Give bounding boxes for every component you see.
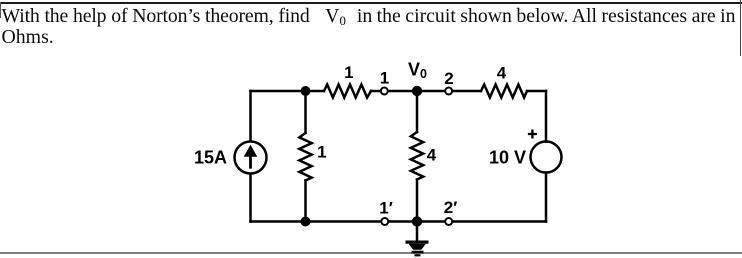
wire terminal 2' to bottom-right corner: [453, 220, 546, 223]
svg-text:1: 1: [380, 69, 389, 88]
current source I1 circle: [235, 142, 267, 174]
problem text line 1: [2, 6, 742, 27]
svg-text:15A: 15A: [194, 148, 227, 168]
terminal node 1' (open): [381, 218, 388, 225]
label plus polarity: [528, 130, 537, 139]
svg-text:1: 1: [344, 63, 353, 82]
wire right side lower: [545, 173, 548, 222]
svg-text:1′: 1′: [379, 199, 393, 218]
wire ground stem: [416, 222, 419, 241]
wire branch R1 upper: [304, 91, 307, 133]
ground symbol: [406, 241, 429, 257]
svg-text:V0: V0: [408, 60, 427, 82]
wire branch R1 lower: [304, 181, 307, 222]
wire branch V0 upper: [416, 91, 419, 132]
svg-text:2′: 2′: [444, 198, 458, 217]
junction dot top-left: [301, 86, 311, 96]
svg-text:2: 2: [444, 69, 453, 88]
left border tick: [0, 2, 1, 18]
resistor R top-left value 1 (zigzag): [324, 85, 371, 98]
top border line: [0, 2, 742, 4]
junction dot node V0: [412, 86, 422, 96]
wire resistor 4 to top-right corner: [527, 90, 546, 93]
svg-text:1: 1: [317, 143, 326, 162]
resistor R top-right value 4 (zigzag): [481, 85, 527, 98]
junction dot bottom-left: [301, 217, 311, 227]
wire left side lower: [249, 174, 252, 222]
junction dot ground node: [412, 216, 422, 226]
voltage source V1 circle: [531, 142, 562, 173]
svg-text:10 V: 10 V: [489, 148, 526, 168]
wire terminal 2 to resistor 4: [453, 90, 481, 93]
resistor R middle value 4 (vertical zigzag): [411, 132, 423, 180]
current source I1 arrow: [244, 145, 258, 169]
wire terminal 1 to node V0: [389, 90, 412, 93]
wire resistor to terminal 1: [371, 90, 380, 93]
wire branch V0 lower: [416, 180, 419, 222]
right border line: [740, 0, 742, 56]
wire node V0 to terminal 2: [421, 90, 444, 93]
bottom gray rule: [0, 252, 742, 255]
wire top-left horizontal: [251, 90, 325, 93]
terminal node 1 (open): [381, 88, 388, 95]
terminal node 2 (open): [445, 88, 452, 95]
resistor R middle-left value 1 (vertical zigzag): [299, 133, 311, 181]
wire right side upper: [545, 91, 548, 142]
svg-text:4: 4: [427, 146, 437, 165]
problem text line 2: [2, 27, 742, 48]
wire bottom from left corner to terminal 1': [251, 220, 381, 223]
terminal node 2' (open): [445, 218, 452, 225]
svg-text:4: 4: [497, 64, 507, 83]
wire terminal 1' to ground node: [389, 220, 444, 223]
wire left side upper: [249, 91, 252, 141]
